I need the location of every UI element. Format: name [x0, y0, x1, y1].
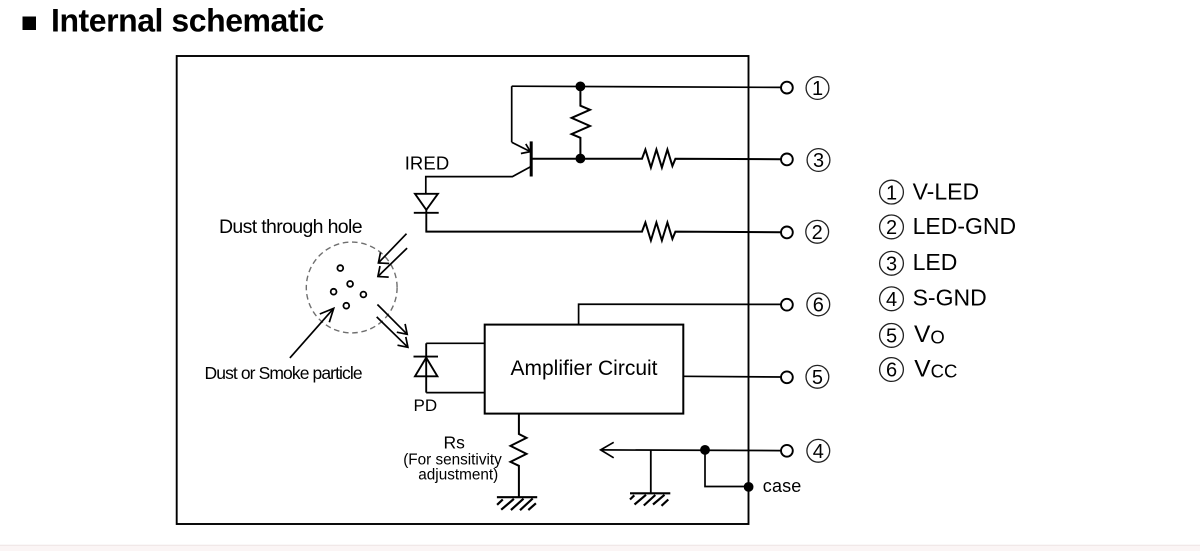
wire: base line to pin 3 with resistor R2: [532, 150, 781, 168]
pin number 3: [807, 149, 830, 172]
case junction dot: [744, 482, 754, 492]
ground under Rs: [497, 497, 537, 510]
svg-text:Dust through hole: Dust through hole: [219, 216, 362, 238]
transistor Q1 emitter diagonal: [426, 167, 531, 194]
legend circled 6: [880, 358, 904, 382]
svg-text:Rs: Rs: [444, 433, 466, 453]
svg-text:S-GND: S-GND: [913, 285, 987, 311]
pin 1 terminal: [781, 82, 793, 94]
wire: IRED cathode to pin 2 with resistor R3: [425, 223, 780, 241]
svg-text:Internal schematic: Internal schematic: [51, 3, 324, 39]
pin 6 terminal: [781, 299, 793, 311]
pin 2 terminal: [781, 227, 793, 239]
title bullet square: [23, 17, 37, 31]
pin 5 terminal: [781, 371, 793, 383]
photodiode PD top wire: [426, 342, 485, 344]
svg-text:LED: LED: [913, 249, 958, 275]
dust particle dot 3: [331, 289, 337, 295]
dust particle dot 4: [361, 292, 367, 298]
legend circled 2: [880, 215, 904, 239]
amplifier U1 box: [485, 325, 684, 414]
svg-text:LED-GND: LED-GND: [913, 213, 1017, 239]
transistor Q1 collector diagonal with arrow: [512, 142, 531, 153]
pin number 4: [807, 439, 830, 462]
svg-text:6: 6: [813, 294, 824, 316]
photodiode PD bottom wire: [426, 392, 485, 394]
svg-text:4: 4: [813, 441, 824, 463]
dust particle dot 5: [343, 303, 349, 309]
wire: amplifier right to pin 5: [683, 375, 780, 378]
svg-text:2: 2: [886, 217, 897, 239]
photodiode PD symbol: [414, 343, 439, 392]
svg-text:1: 1: [812, 78, 823, 100]
wire: S-GND rail to pin 4 with arrow: [601, 442, 781, 458]
svg-text:PD: PD: [414, 396, 438, 415]
junction dot on S-GND rail: [700, 445, 710, 455]
pin number 5: [806, 365, 829, 388]
svg-text:V-LED: V-LED: [913, 178, 979, 204]
dust through hole dashed circle: [306, 242, 397, 333]
svg-text:case: case: [763, 476, 802, 496]
resistor Rs vertical: [511, 414, 527, 497]
ground at S-GND rail: [630, 450, 670, 506]
dust or smoke particle pointer arrow: [290, 308, 334, 358]
outgoing scattered light arrow 1: [377, 305, 407, 335]
svg-text:4: 4: [886, 289, 897, 311]
package outline box: [177, 56, 749, 524]
pin number 1: [806, 77, 829, 100]
dust particle dot 2: [347, 281, 353, 287]
legend circled 3: [880, 251, 904, 275]
pin 4 terminal: [781, 445, 793, 457]
outgoing scattered light arrow 2: [377, 317, 408, 347]
pin 3 terminal: [781, 154, 793, 166]
incoming light arrow 1 (upper): [378, 234, 406, 264]
svg-text:Amplifier Circuit: Amplifier Circuit: [511, 357, 658, 380]
pin number 2: [806, 220, 829, 243]
svg-text:2: 2: [812, 222, 823, 244]
legend circled 5: [880, 324, 904, 348]
resistor R1 (vertical, between top rail and base line): [572, 86, 590, 158]
svg-text:IRED: IRED: [405, 152, 450, 173]
svg-text:3: 3: [813, 150, 824, 172]
svg-text:adjustment): adjustment): [418, 467, 498, 484]
pin number 6: [807, 293, 830, 316]
wire: amplifier top to pin 6: [579, 304, 781, 324]
dust particle dot 1: [337, 265, 343, 271]
svg-text:1: 1: [886, 182, 897, 204]
wire: junction down to case: [705, 450, 749, 487]
svg-text:3: 3: [886, 254, 897, 276]
legend circled 4: [880, 287, 904, 311]
wire: top rail to pin 1: [512, 86, 781, 87]
junction dot base line: [576, 154, 586, 164]
svg-text:5: 5: [812, 367, 823, 389]
IRED diode D1: [414, 194, 439, 232]
wire: vertical drop from top rail (collector lead): [511, 86, 513, 142]
transistor Q1 base bar: [530, 141, 533, 176]
junction dot top rail: [576, 82, 586, 92]
svg-text:6: 6: [886, 360, 897, 382]
legend circled 1: [880, 180, 904, 204]
svg-text:5: 5: [886, 326, 897, 348]
svg-text:Dust or Smoke particle: Dust or Smoke particle: [205, 363, 362, 383]
incoming light arrow 2 (lower): [378, 248, 407, 277]
bottom page band: [0, 546, 1200, 551]
